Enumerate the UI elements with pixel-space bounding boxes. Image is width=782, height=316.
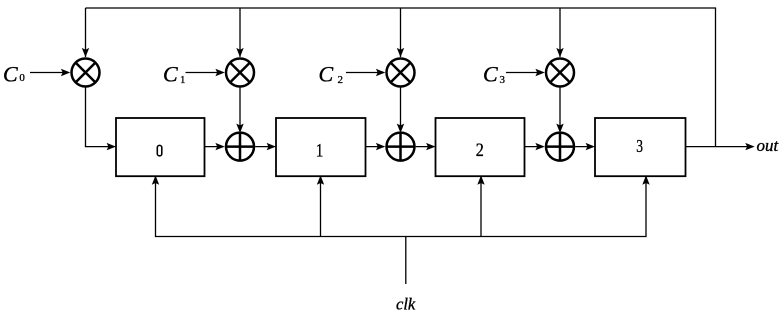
svg-text:3: 3 [636, 137, 643, 156]
svg-text:C: C [163, 61, 178, 86]
svg-text:0: 0 [19, 72, 25, 84]
svg-text:3: 3 [500, 74, 506, 86]
svg-text:2: 2 [338, 74, 344, 86]
svg-text:2: 2 [476, 139, 484, 161]
svg-text:C: C [319, 61, 334, 86]
svg-text:1: 1 [180, 74, 186, 86]
svg-text:out: out [757, 136, 780, 155]
svg-text:C: C [483, 61, 498, 86]
svg-text:1: 1 [316, 140, 324, 161]
svg-text:C: C [3, 61, 18, 86]
svg-text:clk: clk [396, 295, 416, 314]
